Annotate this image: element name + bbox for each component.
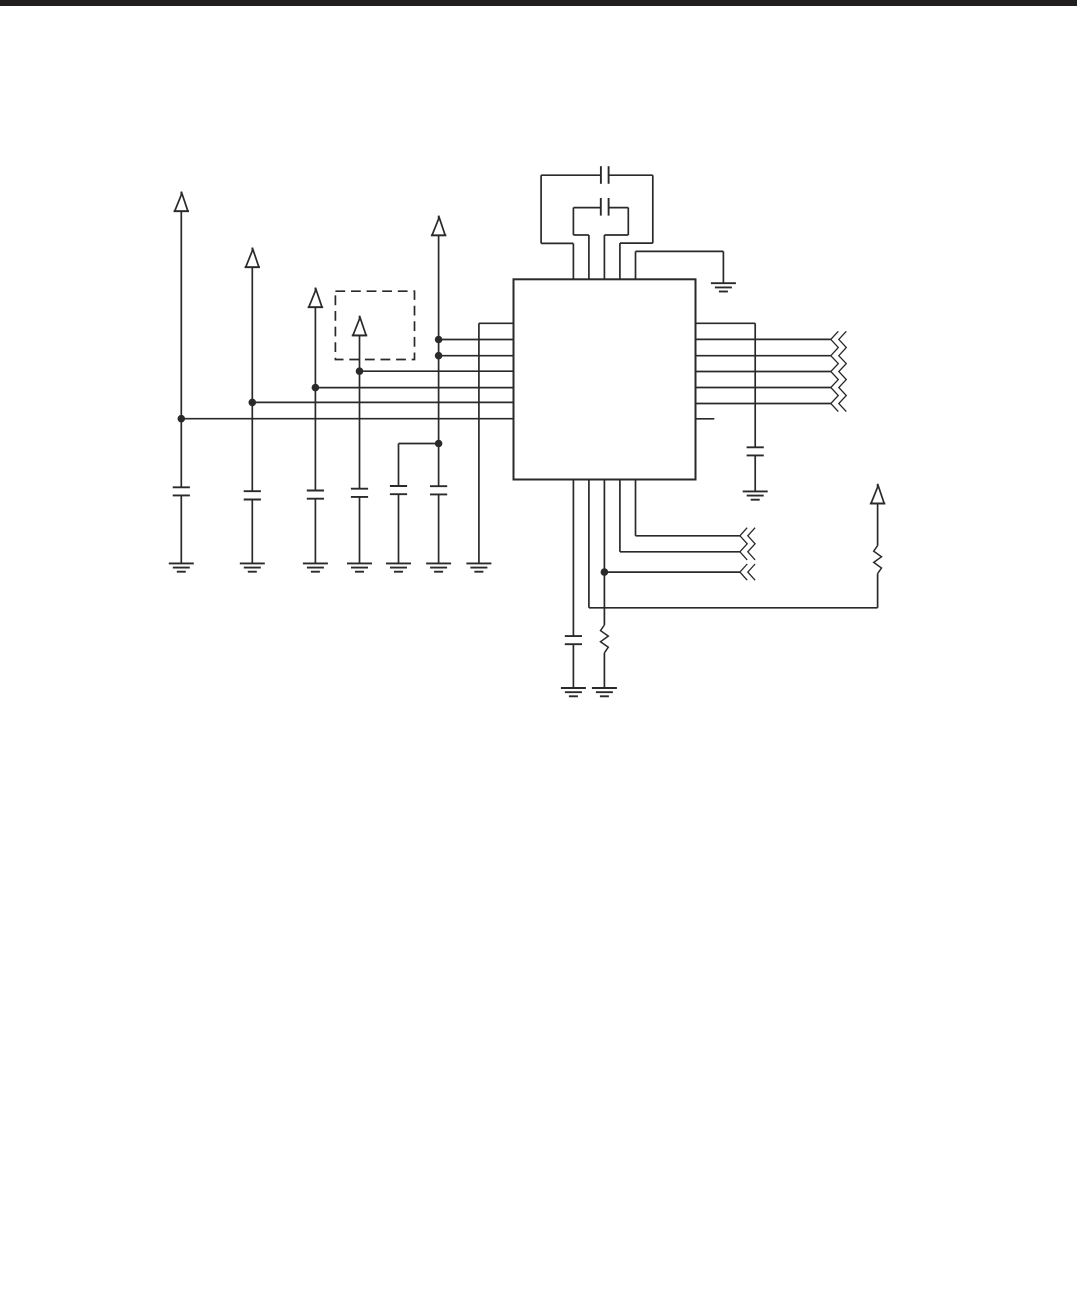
ground [303,562,328,564]
wire C1 to ground [180,495,182,563]
wire IC right stub pin [696,418,715,420]
wire IC left pin 1 [479,322,514,324]
node junction on rail VDD4 [356,367,364,375]
ground [561,687,586,689]
ground [386,562,411,564]
ground [466,562,491,564]
ground [592,687,617,689]
node junction VDD5 pin2 [435,336,443,344]
wire R2 to ground [603,653,605,688]
wire IC right bus 3 [696,371,831,373]
capacitor CX1 [600,166,602,184]
off-page zigzag break bottom B [740,564,747,580]
wire C3 to ground [314,499,316,564]
resistor R1 [874,546,882,574]
power symbol VDD5 [432,216,445,236]
wire top pin 5 to ground [635,251,637,279]
wire C8 to ground [572,644,574,688]
off-page zigzag break bottom A [740,528,747,560]
node junction on rail VDD3 [312,384,320,392]
wire C5 top jog [398,444,400,487]
power symbol VDD2 [246,248,259,268]
wire C7 to ground [754,455,756,491]
wire C4 to ground [359,497,361,564]
wire rail VDD5 [438,235,440,486]
capacitor C2 [244,490,261,492]
wire rail VDD3 [314,307,316,490]
wire IC left pin 3 [439,355,514,357]
capacitor C8 [565,635,582,637]
capacitor C3 [307,490,324,492]
capacitor CX2 [600,198,602,216]
page header bar [0,0,1077,6]
ground [240,562,265,564]
capacitor C5 [390,485,407,487]
power symbol VDD4 [353,316,366,336]
wire IC bottom pin 1 [572,480,574,637]
wire outer loop right [609,174,653,176]
power symbol VDD3 [309,288,322,308]
wire IC left pin 4 [360,370,514,372]
capacitor C1 [173,486,190,488]
node junction VDD5 pin3 [435,352,443,360]
ground [347,562,372,564]
power symbol VDD6 [871,484,884,504]
off-page zigzag bus break right [831,331,839,411]
wire rail VDD4 [359,335,361,488]
wire IC right bus 4 [696,387,831,389]
wire IC left pin 7 [181,418,513,420]
capacitor C6 [430,485,447,487]
wire IC bottom pin 4 [619,480,621,552]
ground [426,562,451,564]
IC U1 (main device) [514,279,696,479]
wire IC bottom pin 2 net [588,480,590,608]
capacitor C4 [351,488,368,490]
wire rail VDD2 [251,267,253,491]
wire pin3 branch [604,571,740,573]
wire inner loop right [609,207,629,209]
wire pin1 ground drop [478,323,480,563]
ground [711,282,736,284]
ground [743,490,768,492]
wire rail VDD1 [180,211,182,487]
dashed enclosure (optional supply) [335,291,414,359]
wire IC right bus 2 [696,355,831,357]
wire IC left pin 2 [439,339,514,341]
resistor R2 [601,625,609,653]
wire R1 to power [877,504,879,546]
ground [169,562,194,564]
wire IC left pin 6 [252,401,513,403]
wire IC bottom pin 3 [603,480,605,626]
wire C5 to ground [398,494,400,563]
wire IC right bus 5 [696,403,831,405]
power symbol VDD1 [175,192,188,212]
capacitor C7 [747,446,764,448]
wire C2 to ground [251,500,253,564]
node junction on rail VDD2 [249,399,257,407]
node junction pin3 [601,568,609,576]
wire C6 to ground [438,494,440,563]
wire IC left pin 5 [315,387,513,389]
wire IC right bus 1 [696,338,831,340]
wire inner loop left [588,235,590,279]
wire IC right pin 1 [696,322,756,324]
node junction on rail VDD1 [178,415,186,423]
wire IC bottom pin 5 [635,480,637,536]
node junction C5/VDD5 [435,440,443,448]
wire outer loop left [572,243,574,279]
